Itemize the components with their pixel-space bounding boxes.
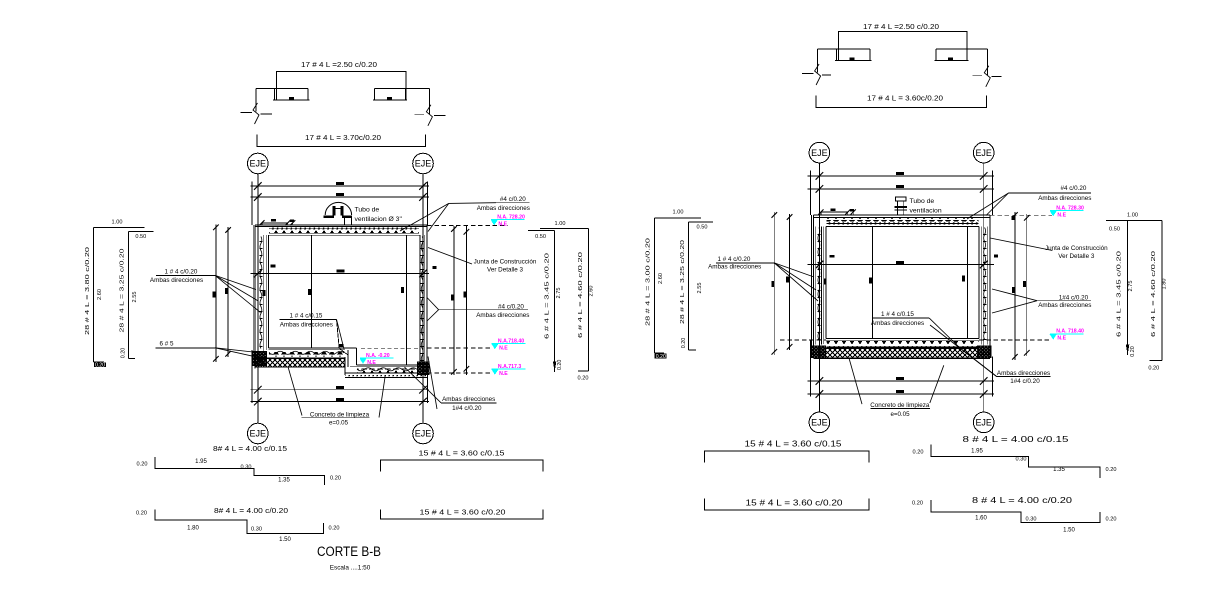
right dashed level top [990, 214, 1052, 216]
left top bar right leg [429, 88, 431, 114]
vent pipe into slab [344, 218, 346, 225]
dashed level across step [361, 347, 420, 349]
svg-text:2.55: 2.55 [697, 283, 703, 294]
right box small dim above slab [821, 211, 848, 213]
right axis line B [983, 163, 985, 412]
svg-text:Escala ....1:50: Escala ....1:50 [330, 565, 371, 572]
right top dim line 1 [808, 175, 995, 177]
upper floor lean-concrete crosshatch [255, 358, 345, 367]
svg-text:Tubo de: Tubo de [910, 198, 935, 205]
left top bar left break line [241, 111, 252, 113]
right ext line 1 [453, 226, 455, 375]
svg-text:2.75: 2.75 [556, 288, 562, 299]
svg-text:N.E: N.E [1057, 212, 1066, 218]
svg-text:0.20: 0.20 [578, 376, 589, 382]
svg-text:Ambas direcciones: Ambas direcciones [150, 277, 203, 284]
svg-text:17 # 4 L =2.50 c/0.20: 17 # 4 L =2.50 c/0.20 [863, 22, 939, 31]
svg-text:6 # 4 L = 4.60 c/0.20: 6 # 4 L = 4.60 c/0.20 [578, 252, 584, 338]
rsr barB [1161, 221, 1163, 361]
svg-text:1.50: 1.50 [1063, 528, 1075, 534]
right sect leader mid-right [992, 289, 1037, 301]
svg-text:1 # 4 c/0.15: 1 # 4 c/0.15 [290, 313, 323, 320]
left box small dim above slab [262, 222, 288, 224]
svg-text:0.20: 0.20 [136, 510, 147, 516]
left axis line A [257, 174, 259, 423]
rs straight bar2 [704, 498, 869, 510]
svg-text:28 # 4 L = 3.25 c/0.20: 28 # 4 L = 3.25 c/0.20 [119, 249, 125, 333]
svg-text:Ambas direcciones: Ambas direcciones [997, 370, 1050, 377]
left top bar left leg [255, 88, 257, 111]
right box left wall footing [811, 346, 826, 358]
axis circle EJE left-bottom [247, 423, 268, 444]
left bar1 0.20 label [94, 362, 106, 367]
rs straight bar1 [704, 451, 869, 463]
svg-text:1.00: 1.00 [112, 220, 123, 226]
svg-text:2.55: 2.55 [132, 292, 138, 303]
svg-text:17 # 4 L = 3.60c/0.20: 17 # 4 L = 3.60c/0.20 [867, 94, 943, 103]
svg-text:1.00: 1.00 [673, 209, 684, 215]
left top bar bracket [277, 72, 406, 101]
svg-text:1.95: 1.95 [971, 448, 983, 454]
right interior mid dim [808, 264, 995, 266]
right sect ext left 2 [789, 214, 791, 350]
svg-text:0.50: 0.50 [697, 225, 708, 231]
upper floor bottom line [255, 356, 345, 358]
svg-text:6 # 4 L = 3.45 c/0.20: 6 # 4 L = 3.45 c/0.20 [1117, 251, 1123, 337]
svg-text:Junta de Construcción: Junta de Construcción [474, 258, 537, 265]
right box left wall snake [818, 228, 820, 340]
svg-text:EJE: EJE [975, 148, 992, 158]
right top bar right hook label [948, 58, 953, 61]
svg-text:8# 4 L = 4.00 c/0.20: 8# 4 L = 4.00 c/0.20 [214, 506, 288, 515]
right floor top lines [826, 338, 979, 340]
right dashed level right [979, 339, 1052, 341]
left ext line 1 [215, 225, 217, 362]
right bottom dim verticals [810, 340, 812, 397]
svg-text:N.E: N.E [367, 360, 376, 366]
svg-text:N.E: N.E [499, 345, 508, 351]
upper floor rebar triangles [269, 352, 344, 356]
svg-text:0.50: 0.50 [535, 234, 546, 240]
left sect right barB [540, 227, 588, 229]
left top bar right break zigzag [426, 105, 432, 126]
right floor rebar snake [827, 346, 979, 348]
axis circle EJE rs left-bottom [809, 412, 830, 433]
rsr barA [1127, 221, 1129, 355]
svg-text:17 # 4 L = 3.70c/0.20: 17 # 4 L = 3.70c/0.20 [305, 133, 381, 142]
right floor crosshatch [826, 349, 979, 359]
right top bar right break zigzag [984, 66, 990, 87]
upper floor rebar snake [269, 351, 344, 354]
leader #4 top-right [449, 202, 496, 205]
stepped bar1 shape [155, 457, 325, 485]
svg-text:0.20: 0.20 [681, 338, 687, 349]
svg-text:1 # 4 c/0.20: 1 # 4 c/0.20 [718, 256, 751, 263]
right junta leader [990, 238, 1052, 251]
left bottom dim line 2 [251, 401, 430, 403]
svg-text:0.50: 0.50 [135, 234, 146, 240]
axis circle EJE right-bottom [413, 423, 434, 444]
leader junta [428, 248, 472, 265]
right box slab top lines [813, 214, 990, 216]
floor step verticals [355, 348, 357, 365]
svg-text:15 # 4 L = 3.60 c/0.15: 15 # 4 L = 3.60 c/0.15 [745, 439, 843, 448]
svg-text:1#4 c/0.20: 1#4 c/0.20 [452, 405, 482, 412]
svg-text:1.95: 1.95 [195, 459, 207, 465]
right ext line 2 [465, 226, 467, 375]
svg-text:#4 c/0.20: #4 c/0.20 [500, 196, 526, 203]
right wall footing hatch [418, 362, 430, 375]
svg-text:15 # 4 L = 3.60 c/0.20: 15 # 4 L = 3.60 c/0.20 [420, 508, 506, 517]
svg-text:1.80: 1.80 [187, 526, 199, 532]
svg-text:0.20: 0.20 [1106, 467, 1117, 473]
svg-text:EJE: EJE [415, 159, 432, 169]
left top bar right break line [415, 113, 425, 115]
lower floor rebar triangles [357, 368, 418, 372]
axis circle EJE right-top [413, 153, 434, 174]
svg-text:0.20: 0.20 [913, 449, 924, 455]
svg-text:8# 4 L = 4.00 c/0.15: 8# 4 L = 4.00 c/0.15 [213, 444, 287, 453]
svg-text:2.60: 2.60 [97, 289, 103, 300]
svg-text:Ver Detalle 3: Ver Detalle 3 [487, 266, 524, 273]
rs stepped bar2 shape [931, 500, 1100, 523]
left dim extension verticals [251, 182, 253, 226]
svg-text:e=0.05: e=0.05 [329, 420, 349, 427]
interior tick labels [340, 344, 344, 347]
svg-text:0.20: 0.20 [330, 475, 341, 481]
straight bar2 [381, 510, 543, 519]
leader #4 mid-right [427, 298, 439, 310]
svg-text:28 # 4 L = 3.00 c/0.20: 28 # 4 L = 3.00 c/0.20 [646, 238, 652, 326]
svg-text:EJE: EJE [811, 418, 828, 428]
right top bar left hook label [849, 58, 854, 61]
right top dim line 2 [808, 188, 995, 190]
svg-text:0.20: 0.20 [557, 360, 563, 371]
svg-text:Ambas direcciones: Ambas direcciones [477, 205, 530, 212]
right wall lines [426, 225, 428, 375]
left top bar right hook rect [373, 88, 430, 100]
svg-text:Ambas direcciones: Ambas direcciones [1038, 195, 1091, 202]
svg-text:N.E: N.E [1057, 336, 1066, 342]
right interior extension a [872, 226, 874, 338]
svg-text:28 # 4 L = 3.80 c/0.20: 28 # 4 L = 3.80 c/0.20 [85, 247, 91, 335]
svg-text:#4 c/0.20: #4 c/0.20 [1061, 185, 1087, 192]
left wall footing hatch [252, 351, 266, 365]
left top bar left hook rect [256, 88, 310, 100]
svg-text:Junta de Construcción: Junta de Construcción [1045, 245, 1108, 252]
right top bar left hook rect [818, 49, 872, 61]
svg-text:28 # 4 L = 3.25 c/0.20: 28 # 4 L = 3.25 c/0.20 [680, 240, 686, 324]
left ext line 2 [227, 227, 229, 357]
right concreto leaders [849, 358, 862, 404]
left top bar left break zigzag [253, 103, 259, 124]
right interior tick labels [830, 255, 835, 258]
lower floor rebar snake [357, 368, 417, 371]
right wall rebar snake [421, 237, 423, 363]
right bar1 0.20 [655, 354, 667, 359]
svg-text:EJE: EJE [250, 159, 267, 169]
right box left wall [812, 215, 814, 357]
left lower bar bracket [257, 135, 425, 147]
svg-text:0.30: 0.30 [241, 465, 252, 471]
right top bar left leg [817, 49, 819, 73]
svg-text:EJE: EJE [250, 429, 267, 439]
svg-text:1.80: 1.80 [1161, 279, 1167, 290]
right vent pipe [895, 197, 906, 201]
vent hood arc [325, 202, 351, 215]
svg-text:Tubo de: Tubo de [355, 207, 380, 214]
svg-text:e=0.05: e=0.05 [890, 411, 910, 418]
svg-text:N.E: N.E [498, 221, 507, 227]
svg-text:Ambas direcciones: Ambas direcciones [476, 312, 529, 319]
svg-text:Ver Detalle 3: Ver Detalle 3 [1058, 253, 1095, 260]
right dashed level left [780, 339, 826, 341]
svg-text:ventilacion Ø 3": ventilacion Ø 3" [355, 216, 403, 223]
interior mid dim line [251, 273, 430, 275]
left top bar left hook label [289, 97, 294, 100]
right box slab rebar dots [827, 223, 979, 225]
svg-text:15 # 4 L = 3.60 c/0.15: 15 # 4 L = 3.60 c/0.15 [419, 449, 505, 458]
svg-text:1#4 c/0.20: 1#4 c/0.20 [1010, 378, 1040, 385]
left top dim line 2 [251, 196, 430, 198]
stepped bar2 shape [155, 510, 324, 534]
right sect leader top-right [967, 193, 1009, 219]
right interior extension b [967, 226, 969, 338]
right sect ext left 1 [773, 212, 775, 355]
lower floor top lines [356, 364, 419, 366]
axis circle EJE right-sect right-top [973, 142, 994, 163]
svg-text:6 # 4 L = 3.45 c/0.20: 6 # 4 L = 3.45 c/0.20 [544, 253, 550, 339]
right top bar left break zigzag [815, 64, 821, 85]
left wall rebar snake [260, 237, 262, 349]
right floor mid line [826, 347, 979, 349]
right bar1 shape [654, 217, 701, 219]
rsr bar top [1106, 220, 1162, 222]
right top bar right hook rect [935, 49, 988, 61]
leaders concreto [288, 367, 302, 416]
svg-text:0.20: 0.20 [912, 500, 923, 506]
leaders bottom-right [404, 367, 441, 403]
svg-text:Ambas direcciones: Ambas direcciones [708, 263, 761, 270]
lower floor bottom lines [345, 372, 427, 374]
right axis line A [818, 163, 820, 412]
dashed level NA718 right [427, 347, 492, 349]
left box slab rebar triangles [269, 230, 419, 233]
interior extension line b [405, 235, 407, 365]
svg-text:EJE: EJE [811, 148, 828, 158]
svg-text:0.20: 0.20 [1130, 346, 1136, 357]
right top bar right leg [987, 49, 989, 75]
right lower bar bracket [816, 96, 986, 108]
svg-text:0.20: 0.20 [1106, 516, 1117, 522]
left axis line B [422, 174, 424, 423]
upper floor top lines [268, 347, 356, 349]
svg-text:0.20: 0.20 [1148, 365, 1159, 371]
svg-text:17 # 4 L =2.50 c/0.20: 17 # 4 L =2.50 c/0.20 [301, 60, 377, 69]
svg-text:2.60: 2.60 [658, 273, 664, 284]
right box right wall snake [984, 228, 986, 340]
vent hood elbow [333, 206, 336, 215]
right sect leader fan [774, 263, 814, 277]
right sect ext right 2 [1026, 214, 1028, 356]
right bottom dim 2 [808, 393, 995, 395]
svg-text:6 # 4 L = 4.60 c/0.20: 6 # 4 L = 4.60 c/0.20 [1151, 251, 1157, 337]
svg-text:0.20: 0.20 [120, 348, 126, 359]
axis circle EJE right-sect left-top [809, 142, 830, 163]
svg-text:8 # 4 L = 4.00 c/0.15: 8 # 4 L = 4.00 c/0.15 [963, 435, 1070, 444]
svg-text:1 # 4 c/0.20: 1 # 4 c/0.20 [165, 268, 198, 275]
svg-text:6 # 5: 6 # 5 [159, 341, 174, 348]
svg-text:N.E: N.E [499, 371, 508, 377]
left bar2 shape [128, 231, 153, 233]
right box slab rebar triangles [827, 218, 979, 221]
left sect right barA [528, 230, 555, 232]
left bottom dim line 1 [251, 389, 430, 391]
left bar1 shape [94, 227, 145, 229]
svg-text:Ambas direcciones: Ambas direcciones [442, 396, 495, 403]
axis circle EJE left-top [247, 153, 268, 174]
svg-text:0.20: 0.20 [329, 525, 340, 531]
svg-text:1.50: 1.50 [279, 537, 291, 543]
right top bar bracket [838, 32, 967, 61]
lower floor dotted band [346, 373, 428, 377]
left box slab top lines [255, 224, 427, 226]
left bottom dim verticals [251, 350, 253, 403]
right box right wall footing [977, 346, 991, 358]
dashed level NA717 right [427, 372, 492, 374]
axis circle EJE rs right-bottom [973, 412, 994, 433]
svg-text:1.00: 1.00 [1127, 212, 1138, 218]
svg-text:1.60: 1.60 [975, 516, 987, 522]
svg-text:15 # 4 L = 3.60 c/0.20: 15 # 4 L = 3.60 c/0.20 [746, 498, 844, 507]
svg-text:0.30: 0.30 [1016, 456, 1027, 462]
svg-text:0.30: 0.30 [1026, 517, 1037, 523]
svg-text:EJE: EJE [415, 429, 432, 439]
right box right wall [989, 215, 991, 357]
left wall lines [254, 225, 256, 369]
svg-text:1.35: 1.35 [278, 477, 290, 483]
right floor bottom line [813, 357, 990, 359]
right bottom dim 1 [808, 380, 995, 382]
left top dim line 1 [251, 185, 430, 187]
svg-text:1.00: 1.00 [555, 221, 566, 227]
straight bar1 [381, 460, 543, 472]
svg-text:2.75: 2.75 [1128, 281, 1134, 292]
svg-text:1 # 4 c/0.15: 1 # 4 c/0.15 [881, 311, 914, 318]
rs stepped bar1 shape [931, 445, 1100, 478]
dashed level NA728 right [427, 224, 508, 226]
right top bar left break line [802, 73, 813, 75]
svg-text:0.20: 0.20 [95, 362, 105, 368]
right bar2 shape [689, 221, 714, 223]
svg-text:CORTE B-B: CORTE B-B [317, 544, 381, 560]
svg-text:Ambas direcciones: Ambas direcciones [1038, 302, 1091, 309]
svg-text:0.30: 0.30 [251, 527, 262, 533]
right floor rebar triangles [827, 341, 979, 344]
right sect ext right 1 [1014, 212, 1016, 360]
right top bar right break line [973, 74, 983, 76]
left box slab rebar dots [269, 227, 419, 229]
svg-text:Ambas direcciones: Ambas direcciones [280, 321, 333, 328]
svg-text:0.20: 0.20 [137, 461, 148, 467]
left top bar right hook label [387, 97, 392, 100]
interior extension line a [311, 235, 313, 348]
svg-text:ventilacion: ventilacion [910, 208, 942, 215]
right interior leaders [929, 318, 960, 348]
leader fan 1#4 left [215, 275, 256, 289]
right dim extension verticals [810, 171, 812, 216]
interior label leaders [337, 319, 349, 355]
svg-text:1.35: 1.35 [1053, 467, 1065, 473]
svg-text:8 # 4 L = 4.00 c/0.20: 8 # 4 L = 4.00 c/0.20 [972, 496, 1073, 505]
svg-text:EJE: EJE [975, 418, 992, 428]
svg-text:0.50: 0.50 [1109, 227, 1120, 233]
leader fan 6#5 [215, 348, 253, 352]
svg-text:Ambas direcciones: Ambas direcciones [871, 320, 924, 327]
svg-text:0.20: 0.20 [656, 354, 666, 360]
svg-text:2.60: 2.60 [588, 286, 594, 297]
